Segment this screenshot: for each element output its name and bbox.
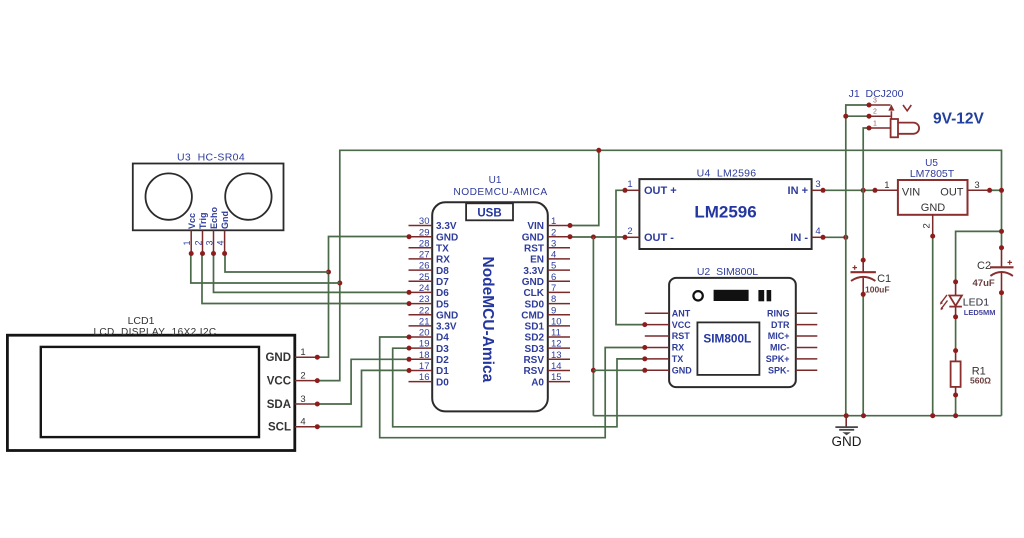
- wire: LED branch from 5V vertical: [956, 231, 1002, 282]
- U1 pin 21 (3.3V): [409, 317, 457, 333]
- svg-text:27: 27: [419, 250, 430, 261]
- LCD1 pin 2 (VCC): [267, 370, 320, 387]
- wire: top 5V rail from VCC vertical to right edge: [340, 149, 1002, 151]
- svg-text:GND: GND: [436, 232, 458, 243]
- junction: ground rail at R1: [953, 413, 958, 418]
- svg-text:CMD: CMD: [521, 310, 544, 321]
- svg-text:1: 1: [551, 216, 556, 227]
- U2 pin MIC-: [770, 343, 817, 353]
- U2 pin DTR: [771, 320, 817, 330]
- svg-text:1: 1: [873, 121, 877, 128]
- svg-text:16: 16: [419, 372, 430, 383]
- svg-text:3: 3: [300, 394, 305, 405]
- junction: LED branch joins 5V vertical: [999, 229, 1004, 234]
- svg-text:1: 1: [627, 179, 632, 190]
- svg-text:29: 29: [419, 227, 430, 238]
- wire: NodeMCU GND pin 2 to LM2596 OUT-: [570, 236, 625, 238]
- LCD1 pin 4 (SCL): [268, 417, 320, 434]
- svg-text:LCD1: LCD1: [128, 315, 155, 327]
- svg-text:1: 1: [300, 347, 305, 358]
- svg-text:21: 21: [419, 317, 430, 328]
- svg-text:D3: D3: [436, 344, 449, 355]
- svg-text:OUT: OUT: [940, 186, 964, 198]
- DC barrel jack J1 DCJ200: [888, 105, 919, 138]
- U1 pin 19 (D3): [407, 339, 450, 355]
- junction: HC-SR04 Gnd joins GND vertical: [326, 270, 331, 275]
- value 560 ohm: [970, 376, 991, 386]
- wire: HC-SR04 Echo to NodeMCU D6 pin 24: [214, 254, 410, 293]
- svg-text:SCL: SCL: [268, 422, 291, 434]
- svg-text:D2: D2: [436, 355, 449, 366]
- svg-text:D6: D6: [436, 288, 449, 299]
- U1 pin 8 (SD0): [525, 294, 570, 310]
- U1 pin 2 (GND): [522, 227, 573, 243]
- value 47uF: [973, 278, 995, 289]
- label C2: [977, 260, 991, 272]
- svg-text:GND: GND: [436, 310, 458, 321]
- regulator module U4 LM2596 body: [639, 179, 811, 249]
- svg-text:7: 7: [551, 283, 556, 294]
- svg-text:LM7805T: LM7805T: [910, 168, 955, 180]
- junction: GND net tee at NodeMCU GND wire: [591, 235, 596, 240]
- svg-text:13: 13: [551, 350, 562, 361]
- U3 pin 4 (Gnd): [215, 211, 230, 256]
- label C1: [877, 273, 891, 285]
- svg-text:D1: D1: [436, 366, 449, 377]
- label LCD DISPLAY 16X2 I2C: [93, 327, 216, 338]
- GSM module U2 SIM800L body: [669, 278, 796, 387]
- svg-text:3: 3: [204, 240, 214, 245]
- U1 pin 29 (GND): [407, 227, 459, 243]
- svg-text:23: 23: [419, 294, 430, 305]
- svg-text:D5: D5: [436, 299, 449, 310]
- U3 pin 2 (Trig): [193, 212, 208, 256]
- svg-text:SD2: SD2: [525, 333, 545, 344]
- label LM7805T: [910, 168, 955, 180]
- wire: SIM800L GND pin to GND vertical: [593, 369, 644, 371]
- label U3 HC-SR04: [177, 152, 245, 164]
- svg-text:560Ω: 560Ω: [970, 376, 991, 386]
- svg-text:C2: C2: [977, 260, 991, 272]
- svg-text:2: 2: [193, 240, 203, 245]
- svg-text:Gnd: Gnd: [220, 211, 230, 229]
- svg-text:OUT +: OUT +: [644, 185, 677, 197]
- U2 pin VCC: [642, 320, 691, 330]
- svg-text:NodeMCU-Amica: NodeMCU-Amica: [479, 257, 496, 383]
- svg-text:GND: GND: [522, 277, 544, 288]
- U2 pin TX: [642, 354, 683, 364]
- svg-text:SPK-: SPK-: [768, 366, 790, 376]
- wire: LCD SDA to NodeMCU D2 pin 18: [317, 359, 409, 404]
- svg-text:RSV: RSV: [523, 355, 544, 366]
- wire: LM7805 GND pin down to ground rail: [932, 236, 934, 416]
- U5 pin 2 (GND): [921, 202, 946, 239]
- wire: DC jack ring pin to ground vertical: [846, 115, 869, 117]
- svg-text:4: 4: [300, 417, 305, 428]
- U1 pin 18 (D2): [407, 350, 450, 366]
- svg-text:LM2596: LM2596: [694, 203, 756, 222]
- svg-text:11: 11: [551, 328, 561, 339]
- svg-text:20: 20: [419, 328, 430, 339]
- svg-text:3: 3: [974, 180, 979, 191]
- svg-text:47uF: 47uF: [973, 278, 995, 289]
- ultrasonic sensor U3 HC-SR04 body: [133, 164, 284, 231]
- junction: HC-SR04 Vcc joins VCC vertical: [337, 281, 342, 286]
- junction: VIN riser meets 5V rail: [596, 148, 601, 153]
- U2 pin GND: [642, 366, 692, 376]
- wire: R1 to ground rail: [955, 395, 957, 416]
- svg-text:9: 9: [551, 305, 556, 316]
- svg-text:VIN: VIN: [527, 221, 544, 232]
- svg-text:Vcc: Vcc: [187, 213, 197, 229]
- svg-text:14: 14: [551, 361, 562, 372]
- svg-text:SD0: SD0: [525, 299, 545, 310]
- U1 pin 13 (RSV): [523, 350, 570, 366]
- svg-text:3: 3: [815, 179, 820, 190]
- svg-text:A0: A0: [531, 377, 544, 388]
- U1 pin 22 (GND): [409, 305, 459, 321]
- LCD1 pin 3 (SDA): [267, 394, 320, 411]
- svg-text:3.3V: 3.3V: [436, 221, 457, 232]
- U1 pin 10 (SD1): [525, 317, 570, 333]
- U1 pin 25 (D7): [409, 272, 450, 288]
- wire: HC-SR04 Gnd pin to GND vertical: [225, 254, 329, 273]
- svg-text:28: 28: [419, 238, 430, 249]
- svg-text:OUT -: OUT -: [644, 232, 674, 244]
- wire: DC jack tip down through C1 to ground rail: [863, 128, 869, 416]
- U2 pin RX: [642, 343, 684, 353]
- svg-text:VIN: VIN: [902, 186, 920, 198]
- wire: LED cathode to R1: [955, 317, 957, 351]
- svg-text:18: 18: [419, 350, 430, 361]
- J1 pin 2: [867, 109, 891, 119]
- svg-text:22: 22: [419, 305, 430, 316]
- J1 pin 3: [867, 98, 891, 108]
- U2 pin RST: [645, 331, 691, 341]
- U1 pin 28 (TX): [409, 238, 450, 254]
- svg-text:VCC: VCC: [267, 376, 291, 388]
- wire: GND vertical down to bottom ground rail: [592, 237, 594, 416]
- wire: NodeMCU D3 pin 19 to SIM800L TX: [393, 348, 645, 427]
- svg-text:3: 3: [551, 238, 556, 249]
- svg-text:D7: D7: [436, 277, 449, 288]
- svg-text:30: 30: [419, 216, 430, 227]
- svg-text:19: 19: [419, 339, 430, 350]
- svg-text:U3 HC-SR04: U3 HC-SR04: [177, 152, 245, 164]
- svg-text:IN +: IN +: [788, 185, 808, 197]
- svg-text:RSV: RSV: [523, 366, 544, 377]
- U1 pin 1 (VIN): [527, 216, 572, 232]
- U4 pin 4 (IN -): [790, 226, 825, 244]
- wire: LM7805 OUT to right 5V vertical: [990, 189, 1002, 191]
- capacitor C1: [851, 258, 876, 297]
- svg-text:3.3V: 3.3V: [523, 266, 544, 277]
- svg-text:U1: U1: [489, 175, 502, 186]
- wire: LM2596 IN+ to LM7805 VIN: [823, 189, 875, 191]
- wire: HC-SR04 Vcc pin to VCC vertical: [191, 254, 340, 284]
- svg-text:1: 1: [884, 180, 889, 191]
- U2 pin SPK+: [766, 354, 818, 364]
- svg-text:C1: C1: [877, 273, 891, 285]
- U1 pin 12 (SD3): [525, 339, 570, 355]
- svg-text:9V-12V: 9V-12V: [933, 111, 985, 128]
- svg-text:100uF: 100uF: [865, 285, 890, 295]
- U1 pin 24 (D6): [407, 283, 450, 299]
- svg-text:MIC-: MIC-: [770, 343, 790, 353]
- svg-text:GND: GND: [265, 352, 291, 364]
- value 100uF: [865, 285, 890, 295]
- svg-text:VCC: VCC: [672, 320, 692, 330]
- regulator U5 LM7805T body: [898, 180, 968, 215]
- label LM2596 (big): [694, 203, 756, 222]
- U4 pin 3 (IN +): [788, 179, 826, 197]
- svg-text:RING: RING: [767, 308, 790, 318]
- label LED1: [963, 297, 989, 309]
- svg-text:SPK+: SPK+: [766, 354, 790, 364]
- svg-text:USB: USB: [477, 207, 501, 219]
- svg-text:25: 25: [419, 272, 430, 283]
- svg-text:D0: D0: [436, 377, 449, 388]
- svg-text:26: 26: [419, 261, 430, 272]
- svg-text:TX: TX: [436, 244, 449, 255]
- svg-text:6: 6: [551, 272, 556, 283]
- junction: jack ring joins ground vertical: [843, 114, 848, 119]
- resistor R1: [951, 348, 961, 397]
- svg-text:SD1: SD1: [525, 322, 545, 333]
- label J1 DCJ200: [849, 88, 904, 100]
- U4 pin 2 (OUT -): [623, 226, 675, 244]
- svg-text:GND: GND: [921, 202, 946, 214]
- U2 pin SPK-: [768, 366, 817, 376]
- svg-text:2: 2: [921, 223, 932, 228]
- wire: NodeMCU D4 pin 20 to SIM800L RX: [380, 337, 645, 438]
- label R1: [972, 366, 986, 378]
- svg-text:ANT: ANT: [672, 308, 691, 318]
- svg-text:2: 2: [627, 226, 632, 237]
- U1 pin 7 (CLK): [523, 283, 570, 299]
- LED LED1: [940, 279, 962, 319]
- LCD display LCD1 body: [7, 335, 294, 450]
- wire: LCD SCL to NodeMCU D1 pin 17: [317, 370, 409, 426]
- svg-text:Trig: Trig: [198, 212, 208, 229]
- J1 pin 1: [867, 121, 891, 131]
- svg-text:GND: GND: [832, 434, 862, 449]
- junction: SIM800L GND tap: [591, 368, 596, 373]
- wire: DC jack ground pins down to ground rail: [846, 105, 869, 416]
- U1 pin 27 (RX): [409, 250, 451, 266]
- svg-text:3: 3: [873, 98, 877, 105]
- svg-text:GND: GND: [672, 366, 693, 376]
- svg-text:MIC+: MIC+: [768, 331, 790, 341]
- U1 pin 14 (RSV): [523, 361, 570, 377]
- svg-text:RST: RST: [672, 331, 691, 341]
- U1 pin 5 (3.3V): [523, 261, 570, 277]
- svg-text:TX: TX: [672, 354, 684, 364]
- junction: ground rail at GND symbol: [844, 413, 849, 418]
- U3 pin 3 (Echo): [204, 206, 219, 256]
- U1 pin 9 (CMD): [521, 305, 570, 321]
- U1 pin 16 (D0): [409, 372, 450, 388]
- U1 pin 30 (3.3V): [409, 216, 457, 232]
- svg-text:LED5MM: LED5MM: [964, 308, 996, 317]
- label GND: [832, 434, 862, 449]
- svg-text:3.3V: 3.3V: [436, 322, 457, 333]
- U1 pin 20 (D4): [407, 328, 450, 344]
- svg-text:1: 1: [182, 240, 192, 245]
- svg-text:D4: D4: [436, 333, 449, 344]
- svg-text:GND: GND: [522, 232, 544, 243]
- svg-text:24: 24: [419, 283, 430, 294]
- capacitor C2: [990, 245, 1014, 295]
- svg-text:10: 10: [551, 317, 562, 328]
- svg-text:SIM800L: SIM800L: [703, 331, 751, 345]
- U2 pin MIC+: [768, 331, 818, 341]
- U1 pin 4 (EN): [530, 250, 570, 266]
- wire: right 5V vertical (rail corner down through C2 to ground rail): [1001, 150, 1003, 416]
- label NodeMCU-Amica (vertical): [479, 257, 496, 383]
- U1 pin 6 (GND): [522, 272, 570, 288]
- svg-text:CLK: CLK: [523, 288, 544, 299]
- svg-text:17: 17: [419, 361, 430, 372]
- wire: VCC vertical (rail corner down to LCD VCC pin 2): [317, 150, 340, 381]
- U2 pin ANT: [645, 308, 691, 318]
- svg-text:D8: D8: [436, 266, 449, 277]
- value LED5MM: [964, 308, 996, 317]
- U1 pin 15 (A0): [531, 372, 570, 388]
- label LCD1: [128, 315, 155, 327]
- svg-text:RX: RX: [436, 255, 450, 266]
- svg-text:U2 SIM800L: U2 SIM800L: [697, 266, 758, 278]
- label USB: [477, 207, 501, 219]
- U1 pin 23 (D5): [407, 294, 450, 310]
- wire: LM2596 OUT+ to SIM800L VCC: [616, 190, 645, 324]
- U1 pin 3 (RST): [524, 238, 570, 254]
- U1 pin 26 (D8): [409, 261, 450, 277]
- svg-text:U4 LM2596: U4 LM2596: [697, 168, 757, 180]
- wire: GND vertical from NodeMCU pin 29 down to LCD GND pin 1: [317, 237, 409, 358]
- svg-text:LED1: LED1: [963, 297, 989, 309]
- svg-text:SDA: SDA: [267, 399, 291, 411]
- svg-text:RX: RX: [672, 343, 685, 353]
- U4 pin 1 (OUT +): [623, 179, 677, 197]
- svg-text:DTR: DTR: [771, 320, 790, 330]
- ground symbol GND: [835, 416, 858, 436]
- label U5: [925, 158, 938, 169]
- svg-text:LCD DISPLAY 16X2 I2C: LCD DISPLAY 16X2 I2C: [93, 327, 216, 338]
- svg-text:4: 4: [815, 226, 820, 237]
- svg-text:8: 8: [551, 294, 556, 305]
- svg-text:2: 2: [551, 227, 556, 238]
- U2 pin RING: [767, 308, 817, 318]
- U1 pin 17 (D1): [407, 361, 450, 377]
- svg-text:2: 2: [873, 109, 877, 116]
- wire: bottom ground rail: [593, 415, 1001, 417]
- label 9V-12V: [933, 111, 985, 128]
- wire: HC-SR04 Trig to NodeMCU D5 pin 23: [202, 254, 409, 304]
- junction: ground rail at C1: [861, 413, 866, 418]
- svg-text:4: 4: [215, 240, 225, 245]
- LCD1 pin 1 (GND): [265, 347, 319, 364]
- svg-text:2: 2: [300, 370, 305, 381]
- wire: NodeMCU VIN pin 1 up to 5V rail: [570, 150, 599, 225]
- svg-text:SD3: SD3: [525, 344, 545, 355]
- U5 pin 1 (VIN): [873, 180, 921, 198]
- svg-text:NODEMCU-AMICA: NODEMCU-AMICA: [453, 187, 547, 198]
- U5 pin 3 (OUT): [940, 180, 1004, 198]
- label NODEMCU-AMICA: [453, 187, 547, 198]
- U1 pin 11 (SD2): [525, 328, 570, 344]
- svg-text:EN: EN: [530, 255, 544, 266]
- svg-text:IN -: IN -: [790, 232, 808, 244]
- U3 pin 1 (Vcc): [182, 213, 197, 256]
- svg-text:4: 4: [551, 250, 556, 261]
- svg-text:5: 5: [551, 261, 556, 272]
- label SIM800L (inner): [703, 331, 751, 345]
- label U4 LM2596: [697, 168, 757, 180]
- svg-text:Echo: Echo: [209, 206, 219, 229]
- svg-text:15: 15: [551, 372, 562, 383]
- microcontroller U1 NodeMCU-Amica body: [432, 202, 548, 411]
- label U2 SIM800L: [697, 266, 758, 278]
- label U1: [489, 175, 502, 186]
- junction: ground rail at LM7805 GND: [930, 413, 935, 418]
- svg-text:12: 12: [551, 339, 562, 350]
- junction: DC jack tip feed on VIN wire: [861, 188, 866, 193]
- svg-text:RST: RST: [524, 244, 544, 255]
- wire: LM2596 IN- to jack ground vertical: [823, 236, 846, 238]
- junction: IN- meets jack ground vertical: [843, 235, 848, 240]
